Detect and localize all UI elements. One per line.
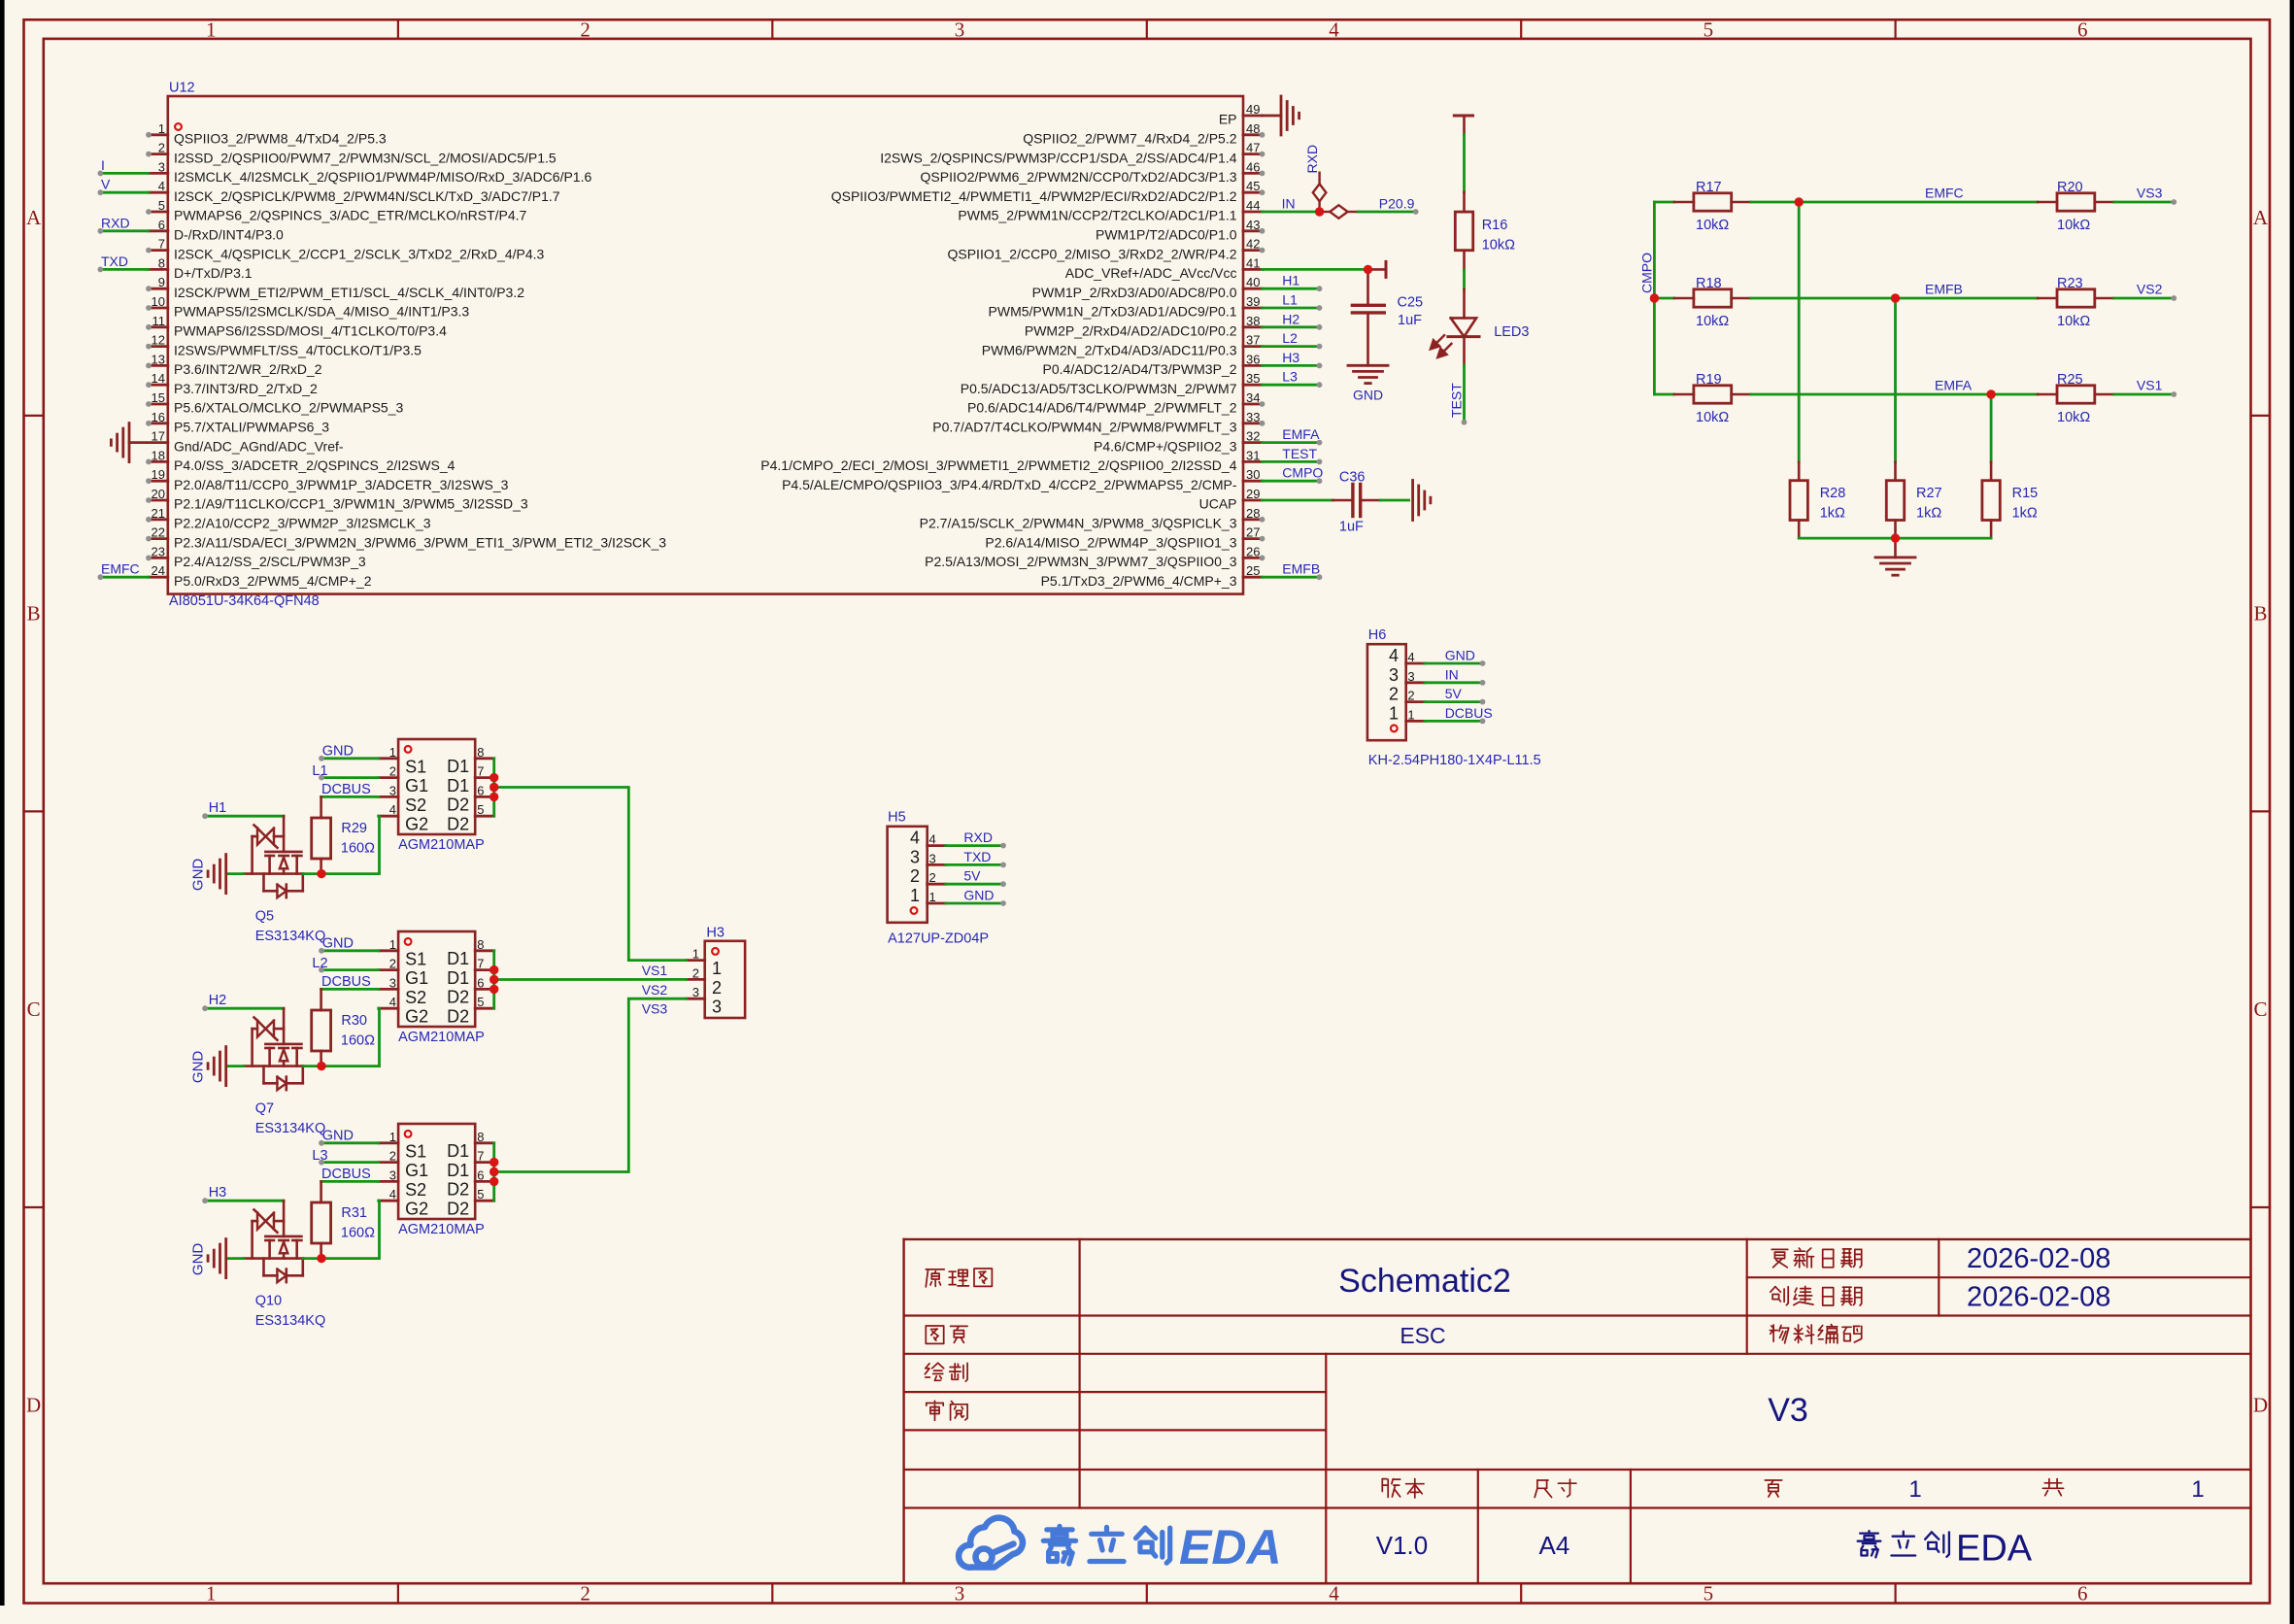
wire MOSFET rail to junction <box>303 1257 321 1260</box>
svg-text:G1: G1 <box>405 1161 428 1180</box>
svg-text:24: 24 <box>152 563 165 578</box>
svg-text:VS3: VS3 <box>642 1001 668 1017</box>
svg-text:P2.5/A13/MOSI_2/PWM3N_3/PWM7_3: P2.5/A13/MOSI_2/PWM3N_3/PWM7_3/QSPIIO0_3 <box>925 554 1237 569</box>
wire MOSFET rail to junction <box>303 1065 321 1067</box>
wire Q5 output to H3 pin 1 <box>494 788 687 961</box>
svg-text:ADC_VRef+/ADC_AVcc/Vcc: ADC_VRef+/ADC_AVcc/Vcc <box>1065 265 1237 281</box>
svg-text:R15: R15 <box>2012 486 2039 501</box>
svg-text:R31: R31 <box>341 1205 367 1221</box>
wire R20 to VS3 <box>2114 199 2176 205</box>
IC U-block AGM210MAP (Q7 driver) <box>398 931 485 1045</box>
U12 pin 44 (PWM5_2/PWM1N/CCP2/T2CLKO/ADC1/P1.1) <box>958 198 1262 223</box>
svg-text:5: 5 <box>477 995 484 1009</box>
svg-text:38: 38 <box>1246 314 1260 328</box>
svg-text:4: 4 <box>910 829 920 848</box>
U12 pin 9 (I2SCK/PWM_ETI2/PWM_ETI1/SCL_4/SCLK_4/INT0/P3.2) <box>146 275 524 300</box>
svg-text:PWM5_2/PWM1N/CCP2/T2CLKO/ADC1/: PWM5_2/PWM1N/CCP2/T2CLKO/ADC1/P1.1 <box>958 208 1236 223</box>
U12 pin 14 (P3.7/INT3/RD_2/TxD_2) <box>146 371 318 396</box>
wire net RXD from H5 pin 4 <box>946 843 1006 849</box>
svg-text:29: 29 <box>1246 487 1260 501</box>
net label CMPO (rotated) <box>1639 253 1655 293</box>
title block value: 2026-02-08 <box>1967 1282 2110 1313</box>
U12 pin 26 (P2.5/A13/MOSI_2/PWM3N_3/PWM7_3/QSPIIO0_3) <box>925 544 1265 569</box>
svg-text:D2: D2 <box>447 1199 469 1218</box>
title block value: V3 <box>1768 1392 1808 1429</box>
svg-text:R20: R20 <box>2057 180 2083 195</box>
svg-text:P0.6/ADC14/AD6/T4/PWM4P_2/PWMF: P0.6/ADC14/AD6/T4/PWM4P_2/PWMFLT_2 <box>967 400 1237 416</box>
svg-text:3: 3 <box>389 1167 396 1182</box>
svg-text:1kΩ: 1kΩ <box>1916 506 1941 522</box>
U12 pin 41 (ADC_VRef+/ADC_AVcc/Vcc) <box>1065 255 1263 281</box>
svg-text:QSPIIO3/PWMETI2_4/PWMETI1_4/PW: QSPIIO3/PWMETI2_4/PWMETI1_4/PWM2P/ECI/Rx… <box>831 188 1237 204</box>
svg-text:CMPO: CMPO <box>1639 253 1655 293</box>
svg-text:1: 1 <box>206 1582 217 1606</box>
wire net DCBUS to block pin 3 <box>321 988 379 991</box>
junction at Q7 D1 pin 7 <box>489 965 498 974</box>
wire net EMFB row <box>1751 297 2038 300</box>
wire Q7 block output (D pins common) <box>492 951 495 1008</box>
svg-text:EMFA: EMFA <box>1282 426 1320 442</box>
svg-text:H2: H2 <box>1282 311 1299 326</box>
svg-text:S1: S1 <box>405 757 426 776</box>
svg-text:D2: D2 <box>447 1180 469 1200</box>
svg-text:7: 7 <box>477 764 484 779</box>
title block label: page N (页 1 共 1) <box>1765 1476 2204 1503</box>
svg-text:45: 45 <box>1246 179 1260 193</box>
U12 pin 13 (P3.6/INT2/WR_2/RxD_2) <box>146 352 322 377</box>
ground symbol GND below C25 <box>1348 365 1388 402</box>
svg-text:U12: U12 <box>169 81 195 96</box>
net label 5V <box>1445 686 1463 701</box>
wire net CMPO vertical bus <box>1653 202 1656 394</box>
AGM210MAP Q7 pin 4/5 <box>379 995 494 1027</box>
H6 pin 3 <box>1389 665 1425 685</box>
svg-text:S2: S2 <box>405 795 426 815</box>
svg-text:ES3134KQ: ES3134KQ <box>255 929 326 944</box>
svg-text:P2.7/A15/SCLK_2/PWM4N_3/PWM8_3: P2.7/A15/SCLK_2/PWM4N_3/PWM8_3/QSPICLK_3 <box>920 516 1237 531</box>
svg-text:8: 8 <box>477 745 484 760</box>
net label H2 <box>1282 311 1299 326</box>
resistor R31 160Ohm <box>312 1181 375 1258</box>
svg-text:D: D <box>2253 1394 2268 1417</box>
ground symbol at MOSFET source <box>190 1047 226 1086</box>
wire EMFA junction down to R15 <box>1990 394 1993 462</box>
svg-text:L1: L1 <box>312 763 327 779</box>
svg-text:AGM210MAP: AGM210MAP <box>398 1030 485 1045</box>
svg-text:EMFB: EMFB <box>1925 282 1963 297</box>
svg-text:3: 3 <box>1407 669 1414 684</box>
svg-text:14: 14 <box>152 371 165 386</box>
svg-text:1: 1 <box>692 947 699 962</box>
wire net 5V from H5 pin 2 <box>946 881 1006 887</box>
svg-text:C: C <box>2253 998 2267 1021</box>
svg-text:AGM210MAP: AGM210MAP <box>398 837 485 853</box>
wire net L1 to block pin 2 <box>319 775 379 781</box>
svg-text:35: 35 <box>1246 371 1260 386</box>
svg-text:P2.3/A11/SDA/ECI_3/PWM2N_3/PWM: P2.3/A11/SDA/ECI_3/PWM2N_3/PWM6_3/PWM_ET… <box>174 534 666 550</box>
wire block pin 4 to gate node <box>321 1008 380 1066</box>
svg-text:C36: C36 <box>1339 470 1366 486</box>
svg-text:6: 6 <box>477 975 484 990</box>
H6 pin 1 <box>1389 703 1425 723</box>
svg-text:I2SMCLK_4/I2SMCLK_2/QSPIIO1/PW: I2SMCLK_4/I2SMCLK_2/QSPIIO1/PWM4P/MISO/R… <box>174 169 591 185</box>
svg-text:GND: GND <box>322 743 354 759</box>
U12 pin 12 (I2SWS/PWMFLT/SS_4/T0CLKO/T1/P3.5) <box>146 333 422 358</box>
title block label: part number (物料编码) <box>1770 1325 1861 1344</box>
svg-text:P2.2/A10/CCP2_3/PWM2P_3/I2SMCL: P2.2/A10/CCP2_3/PWM2P_3/I2SMCLK_3 <box>174 516 431 531</box>
svg-text:1: 1 <box>712 959 722 978</box>
H3 pin 2 <box>687 965 722 998</box>
svg-text:22: 22 <box>152 525 165 540</box>
svg-text:7: 7 <box>477 1149 484 1164</box>
capacitor C25 1uF <box>1352 269 1423 365</box>
wire net L2 to block pin 2 <box>319 967 379 973</box>
svg-text:1: 1 <box>158 121 165 136</box>
U12 pin 23 (P2.4/A12/SS_2/SCL/PWM3P_3) <box>146 544 366 569</box>
AGM210MAP Q5 pin 3/6 <box>379 783 494 815</box>
title block value: Schematic2 <box>1338 1263 1511 1300</box>
net label RXD <box>101 215 130 230</box>
net label L1 <box>312 763 327 779</box>
H3 pin 3 <box>687 985 722 1017</box>
svg-text:P2.1/A9/T11CLKO/CCP1_3/PWM1N_3: P2.1/A9/T11CLKO/CCP1_3/PWM1N_3/PWM5_3/I2… <box>174 496 528 512</box>
net label VS3 <box>642 1001 668 1017</box>
svg-text:3: 3 <box>158 159 165 174</box>
wire net H3 from U12 pin 36 <box>1263 363 1323 369</box>
svg-text:G2: G2 <box>405 1200 428 1219</box>
net label EMFB <box>1925 282 1963 297</box>
title block label: reviewed (审阅) <box>927 1401 967 1420</box>
svg-text:GND: GND <box>190 859 207 892</box>
U12 pin 2 (I2SSD_2/QSPIIO0/PWM7_2/PWM3N/SCL_2/MOSI/ADC5/P1.5) <box>146 141 557 166</box>
svg-text:1: 1 <box>929 890 936 904</box>
connector H6 KH-2.54PH180-1X4P-L11.5 <box>1367 627 1541 768</box>
svg-text:GND: GND <box>322 1128 354 1143</box>
U12 pin 35 (P0.5/ADC13/AD5/T3CLKO/PWM3N_2/PWM7) <box>961 371 1263 396</box>
svg-text:I2SCK_4/QSPICLK_2/CCP1_2/SCLK_: I2SCK_4/QSPICLK_2/CCP1_2/SCLK_3/TxD2_2/R… <box>174 246 545 261</box>
resistor R16 10kOhm <box>1455 192 1515 270</box>
svg-text:QSPIIO1_2/CCP0_2/MISO_3/RxD2_2: QSPIIO1_2/CCP0_2/MISO_3/RxD2_2/WR/P4.2 <box>947 246 1236 261</box>
svg-text:DCBUS: DCBUS <box>321 1167 371 1182</box>
svg-text:R23: R23 <box>2057 276 2083 291</box>
U12 pin 42 (QSPIIO1_2/CCP0_2/MISO_3/RxD2_2/WR/P4.2) <box>947 237 1265 262</box>
svg-text:R30: R30 <box>341 1013 367 1029</box>
svg-text:5: 5 <box>477 802 484 817</box>
svg-text:10kΩ: 10kΩ <box>1696 410 1729 425</box>
U12 pin 5 (PWMAPS6_2/QSPINCS_3/ADC_ETR/MCLKO/nRST/P4.7) <box>146 198 526 223</box>
svg-text:D-/RxD/INT4/P3.0: D-/RxD/INT4/P3.0 <box>174 227 284 243</box>
svg-text:11: 11 <box>152 314 166 328</box>
connector H3 <box>705 925 745 1018</box>
junction at U12 pin 44 / RXD flag <box>1315 207 1324 216</box>
U12 pin 47 (I2SWS_2/QSPINCS/PWM3P/CCP1/SDA_2/SS/ADC4/P1.4) <box>880 141 1265 166</box>
U12 pin 11 (PWMAPS6/I2SSD/MOSI_4/T1CLKO/T0/P3.4) <box>146 314 447 339</box>
svg-text:EMFC: EMFC <box>1925 186 1964 201</box>
svg-text:TEST: TEST <box>1448 383 1464 418</box>
svg-text:47: 47 <box>1246 141 1260 155</box>
junction at Q10 D2 pin 6 <box>489 1177 498 1186</box>
AGM210MAP Q7 pin 1/8 <box>379 937 494 969</box>
wire power bar to R16 <box>1463 134 1466 192</box>
svg-text:41: 41 <box>1246 255 1260 270</box>
junction at R30 / MOSFET drain node <box>317 1062 325 1070</box>
svg-text:DCBUS: DCBUS <box>321 974 371 990</box>
svg-text:10kΩ: 10kΩ <box>2057 410 2090 425</box>
svg-text:5: 5 <box>1704 18 1714 42</box>
svg-text:5V: 5V <box>963 868 981 884</box>
svg-text:VS3: VS3 <box>2137 186 2163 201</box>
H5 pin 3 <box>910 847 946 866</box>
svg-text:V3: V3 <box>1768 1392 1808 1429</box>
H5 pin 4 <box>910 829 946 848</box>
wire net GND from H5 pin 1 <box>946 900 1006 906</box>
svg-text:5: 5 <box>158 198 165 213</box>
junction at R31 / MOSFET drain node <box>317 1254 325 1263</box>
net label GND <box>963 888 994 903</box>
svg-text:RXD: RXD <box>963 829 993 845</box>
svg-text:D1: D1 <box>447 757 469 776</box>
svg-text:4: 4 <box>389 995 396 1009</box>
svg-text:D1: D1 <box>447 776 469 795</box>
svg-text:2: 2 <box>158 141 165 155</box>
svg-text:R18: R18 <box>1696 276 1722 291</box>
junction at CMPO / R18 <box>1650 293 1659 302</box>
svg-text:I2SCK_2/QSPICLK/PWM8_2/PWM4N/S: I2SCK_2/QSPICLK/PWM8_2/PWM4N/SCLK/TxD_3/… <box>174 188 560 204</box>
resistor R27 1kOhm <box>1886 462 1941 538</box>
wire net L1 from U12 pin 39 <box>1263 305 1323 311</box>
svg-text:2: 2 <box>692 965 699 980</box>
svg-text:GND: GND <box>190 1051 207 1084</box>
wire from U12 pin 29 (UCAP) <box>1263 499 1333 502</box>
svg-text:CMPO: CMPO <box>1282 465 1323 481</box>
title block label: create date (创建日期) <box>1771 1286 1862 1305</box>
net label P20.9 <box>1379 195 1415 211</box>
svg-text:D2: D2 <box>447 795 469 815</box>
svg-text:C: C <box>27 998 41 1021</box>
svg-text:31: 31 <box>1246 448 1260 462</box>
wire net L2 from U12 pin 37 <box>1263 344 1323 350</box>
svg-text:D2: D2 <box>447 814 469 833</box>
wire net L3 from U12 pin 35 <box>1263 382 1323 388</box>
net label RXD <box>963 829 993 845</box>
svg-text:3: 3 <box>712 998 722 1017</box>
U12 pin 21 (P2.2/A10/CCP2_3/PWM2P_3/I2SMCLK_3) <box>146 506 431 531</box>
svg-text:D1: D1 <box>447 949 469 968</box>
net label V <box>101 177 111 192</box>
svg-text:B: B <box>2253 602 2267 626</box>
svg-text:DCBUS: DCBUS <box>1445 705 1493 721</box>
wire Q5 block output (D pins common) <box>492 759 495 816</box>
U12 pin 16 (P5.7/XTALI/PWMAPS6_3) <box>146 410 329 435</box>
title block value: JLCEDA (嘉立创EDA) <box>1858 1529 2033 1570</box>
wire LED3 to TEST <box>1462 337 1467 425</box>
svg-text:I2SSD_2/QSPIIO0/PWM7_2/PWM3N/S: I2SSD_2/QSPIIO0/PWM7_2/PWM3N/SCL_2/MOSI/… <box>174 150 557 165</box>
svg-text:GND: GND <box>1353 388 1383 403</box>
junction at Q10 output tap <box>489 1167 498 1176</box>
svg-text:3: 3 <box>389 975 396 990</box>
svg-text:43: 43 <box>1246 218 1260 232</box>
net label TEST <box>1282 446 1317 461</box>
svg-text:P3.7/INT3/RD_2/TxD_2: P3.7/INT3/RD_2/TxD_2 <box>174 381 318 396</box>
svg-text:GND: GND <box>1445 648 1475 663</box>
H5 pin 2 <box>910 866 946 886</box>
svg-text:12: 12 <box>152 333 165 348</box>
svg-text:160Ω: 160Ω <box>341 1033 375 1049</box>
svg-text:S1: S1 <box>405 1141 426 1161</box>
U12 pin 8 (D+/TxD/P3.1) <box>149 255 253 281</box>
svg-text:Schematic2: Schematic2 <box>1338 1263 1511 1300</box>
ground symbol at U12 pin 17 <box>111 423 129 462</box>
svg-text:1: 1 <box>2191 1476 2204 1503</box>
net label GND <box>322 935 354 951</box>
svg-text:10kΩ: 10kΩ <box>1696 218 1729 233</box>
IC U12 AI8051U-34K64-QFN48 body <box>168 81 1243 609</box>
wire net DCBUS to block pin 3 <box>321 795 379 798</box>
svg-text:25: 25 <box>1246 563 1260 578</box>
wire net TXD to U12 pin 8 <box>98 267 150 273</box>
U12 pin 7 (I2SCK_4/QSPICLK_2/CCP1_2/SCLK_3/TxD2_2/RxD_4/P4.3) <box>146 237 544 262</box>
svg-text:2: 2 <box>389 764 396 779</box>
junction at Q5 D2 pin 6 <box>489 793 498 801</box>
svg-text:QSPIIO3_2/PWM8_4/TxD4_2/P5.3: QSPIIO3_2/PWM8_4/TxD4_2/P5.3 <box>174 131 387 147</box>
net label H1 <box>1282 273 1299 288</box>
svg-text:KH-2.54PH180-1X4P-L11.5: KH-2.54PH180-1X4P-L11.5 <box>1368 753 1541 768</box>
title block value: 2026-02-08 <box>1967 1243 2110 1274</box>
svg-text:D2: D2 <box>447 1006 469 1026</box>
net label H1 <box>209 800 227 816</box>
svg-text:P4.0/SS_3/ADCETR_2/QSPINCS_2/I: P4.0/SS_3/ADCETR_2/QSPINCS_2/I2SWS_4 <box>174 457 455 473</box>
svg-text:4: 4 <box>1329 1582 1339 1606</box>
U12 pin 39 (PWM5/PWM1N_2/TxD3/AD1/ADC9/P0.1) <box>989 294 1263 320</box>
svg-text:GND: GND <box>190 1243 207 1276</box>
svg-text:P0.4/ADC12/AD4/T3/PWM3P_2: P0.4/ADC12/AD4/T3/PWM3P_2 <box>1043 361 1237 377</box>
svg-text:160Ω: 160Ω <box>341 1226 375 1241</box>
resistor R28 1kOhm <box>1790 462 1845 538</box>
svg-text:34: 34 <box>1246 390 1260 405</box>
svg-text:4: 4 <box>389 802 396 817</box>
svg-text:Gnd/ADC_AGnd/ADC_Vref-: Gnd/ADC_AGnd/ADC_Vref- <box>174 438 344 454</box>
wire net GND to Q10 block pin 1 <box>319 1140 379 1146</box>
IC U-block AGM210MAP (Q10 driver) <box>398 1124 485 1237</box>
svg-text:6: 6 <box>158 218 165 232</box>
svg-text:I: I <box>101 157 105 173</box>
svg-text:5: 5 <box>477 1187 484 1201</box>
svg-text:A: A <box>26 206 42 229</box>
net label TEST (rotated) <box>1448 383 1464 418</box>
AGM210MAP Q10 pin 3/6 <box>379 1167 494 1200</box>
svg-text:2: 2 <box>1407 689 1414 703</box>
U12 pin 48 (QSPIIO2_2/PWM7_4/RxD4_2/P5.2) <box>1023 121 1265 147</box>
svg-text:H1: H1 <box>1282 273 1299 288</box>
ground symbol at MOSFET source <box>190 855 226 894</box>
resistor R15 1kOhm <box>1982 462 2038 538</box>
svg-text:6: 6 <box>477 783 484 797</box>
H3 pin 1 <box>687 947 722 979</box>
svg-text:46: 46 <box>1246 159 1260 174</box>
svg-text:1: 1 <box>389 1130 396 1144</box>
wire GND to MOSFET source rail <box>226 1257 244 1260</box>
svg-text:Q10: Q10 <box>255 1294 282 1309</box>
wire net H2 from U12 pin 38 <box>1263 324 1323 330</box>
net label L3 <box>312 1148 327 1164</box>
svg-text:H3: H3 <box>706 925 725 940</box>
net label H2 <box>209 993 227 1008</box>
svg-text:4: 4 <box>158 179 165 193</box>
svg-text:DCBUS: DCBUS <box>321 782 371 797</box>
svg-text:40: 40 <box>1246 275 1260 289</box>
svg-text:D1: D1 <box>447 1161 469 1180</box>
wire block pin 4 to gate node <box>321 1201 380 1258</box>
H5 pin 1 <box>910 886 946 905</box>
junction at R27 ground rail <box>1891 533 1900 542</box>
U12 pin 45 (QSPIIO3/PWMETI2_4/PWMETI1_4/PWM2P/ECI/RxD2/ADC2/P1.2) <box>831 179 1265 204</box>
svg-text:44: 44 <box>1246 198 1260 213</box>
U12 pin 1 (QSPIIO3_2/PWM8_4/TxD4_2/P5.3) <box>146 121 387 147</box>
svg-text:EMFC: EMFC <box>101 561 140 577</box>
net label EMFC <box>101 561 140 577</box>
wire Q7 output to H3 pin 2 <box>494 978 687 981</box>
junction at Q7 D2 pin 6 <box>489 985 498 994</box>
AGM210MAP Q10 pin 4/5 <box>379 1187 494 1219</box>
net label DCBUS <box>321 974 371 990</box>
junction at U12 pin 41 node <box>1364 265 1372 274</box>
resistor R29 160Ohm <box>312 796 375 873</box>
wire R25 to VS1 <box>2114 391 2176 397</box>
net label IN <box>1282 195 1296 211</box>
svg-text:VS2: VS2 <box>642 982 668 998</box>
svg-text:6: 6 <box>477 1167 484 1182</box>
U12 pin 24 (P5.0/RxD3_2/PWM5_4/CMP+_2) <box>149 563 372 589</box>
svg-text:UCAP: UCAP <box>1199 496 1237 512</box>
net label TXD <box>963 849 991 864</box>
svg-text:2: 2 <box>389 1149 396 1164</box>
logo JLCEDA text (嘉立创EDA) <box>1043 1520 1281 1574</box>
svg-text:EMFB: EMFB <box>1282 561 1320 577</box>
svg-text:2: 2 <box>712 978 722 998</box>
power bar flag at pin 41 node <box>1368 261 1387 277</box>
U12 pin 30 (P4.5/ALE/CMPO/QSPIIO3_3/P4.4/RD/TxD_4/CCP2_2/PWMAPS5_2/CMP-) <box>782 467 1262 492</box>
title block value: A4 <box>1538 1531 1569 1560</box>
svg-text:L3: L3 <box>1282 369 1298 385</box>
svg-text:3: 3 <box>1389 665 1399 685</box>
wire net IN from H6 pin 3 <box>1425 680 1485 686</box>
label ES3134KQ <box>255 929 326 944</box>
svg-text:D1: D1 <box>447 1141 469 1161</box>
IC U-block AGM210MAP (Q5 driver) <box>398 739 485 853</box>
svg-text:L2: L2 <box>1282 330 1298 346</box>
svg-text:S1: S1 <box>405 949 426 968</box>
svg-text:PWMAPS6_2/QSPINCS_3/ADC_ETR/MC: PWMAPS6_2/QSPINCS_3/ADC_ETR/MCLKO/nRST/P… <box>174 208 527 223</box>
svg-text:B: B <box>27 602 41 626</box>
wire EMFB junction down to R27 <box>1894 298 1897 462</box>
svg-text:32: 32 <box>1246 429 1260 444</box>
junction EMFB / R27 branch <box>1891 293 1900 302</box>
wire net EMFC row <box>1751 201 2038 204</box>
svg-text:6: 6 <box>2077 1582 2088 1606</box>
svg-text:L2: L2 <box>312 956 327 971</box>
svg-text:H3: H3 <box>209 1185 227 1201</box>
svg-text:PWMAPS6/I2SSD/MOSI_4/T1CLKO/T0: PWMAPS6/I2SSD/MOSI_4/T1CLKO/T0/P3.4 <box>174 323 447 339</box>
transistor Q7 ES3134KQ (N-MOSFET with TVS and body diode) <box>244 1008 303 1090</box>
LED LED3 <box>1431 289 1530 357</box>
svg-text:D: D <box>26 1394 41 1417</box>
svg-text:L1: L1 <box>1282 292 1298 308</box>
svg-text:10kΩ: 10kΩ <box>2057 314 2090 329</box>
svg-text:3: 3 <box>929 851 936 865</box>
svg-text:P5.6/XTALO/MCLKO_2/PWMAPS5_3: P5.6/XTALO/MCLKO_2/PWMAPS5_3 <box>174 400 403 416</box>
svg-text:H2: H2 <box>209 993 227 1008</box>
svg-text:D+/TxD/P3.1: D+/TxD/P3.1 <box>174 265 253 281</box>
